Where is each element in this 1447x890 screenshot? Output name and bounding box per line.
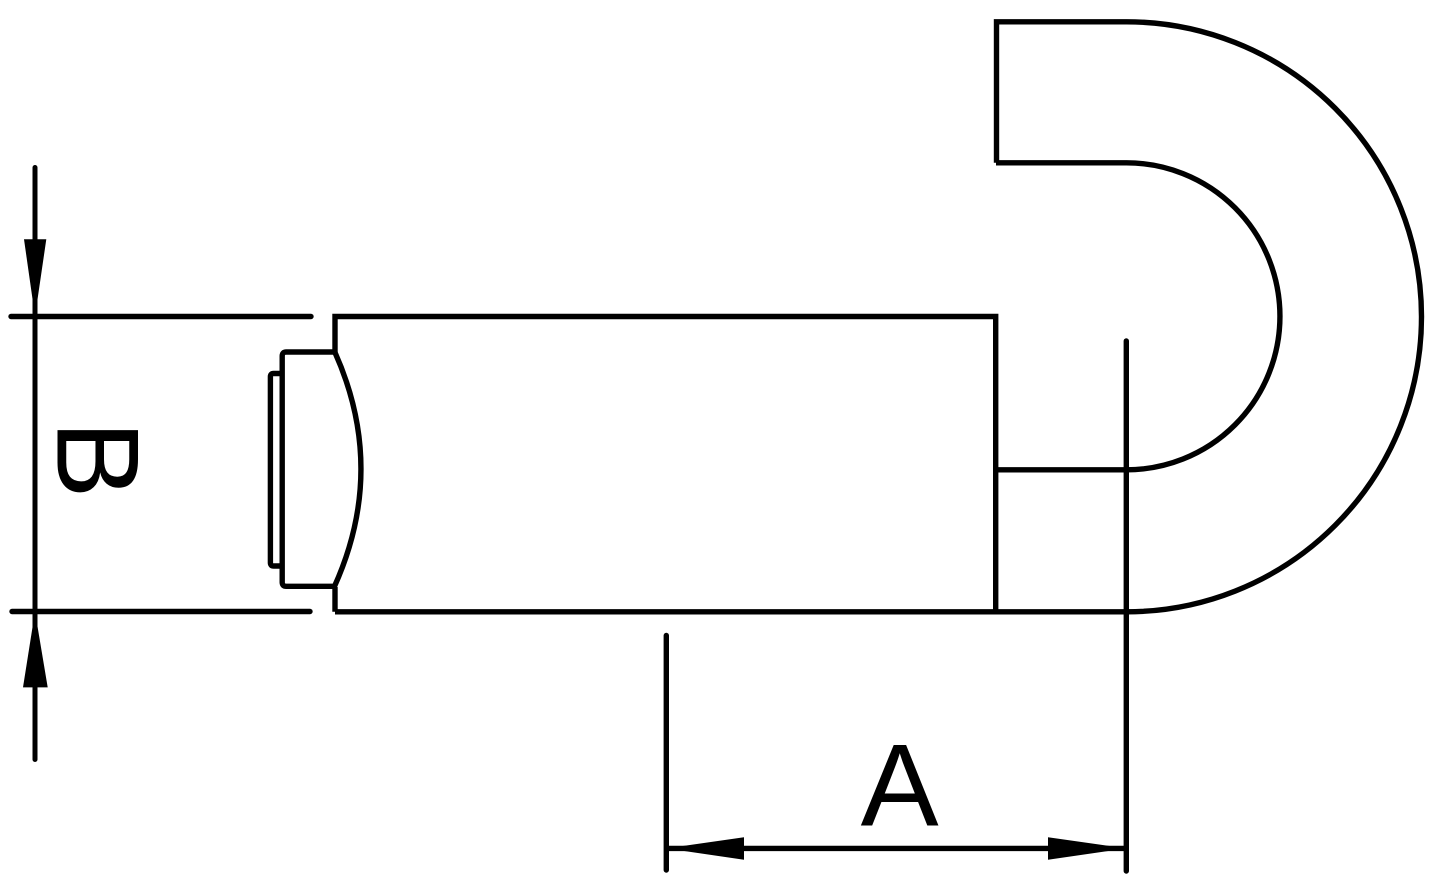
dimension B vertical line — [33, 168, 38, 760]
end cap dome arc — [334, 352, 361, 587]
dimension A left arrowhead — [666, 837, 744, 860]
hook outer profile (stub + outer arc) — [997, 22, 1422, 612]
hook inner profile (inner arc + throat line) — [996, 163, 1280, 470]
dimension A left extension line — [664, 636, 669, 871]
dimension B bottom extension line — [12, 609, 310, 614]
end cap collar rectangle — [282, 352, 334, 586]
end cap flange rectangle — [270, 374, 282, 567]
dimension A right extension line — [1124, 341, 1129, 871]
dimension A dimension line — [666, 846, 1126, 851]
dimension B bottom arrowhead — [23, 612, 48, 688]
svg-text:A: A — [861, 720, 939, 851]
body bottom line joining hook — [335, 609, 1127, 614]
svg-text:B: B — [33, 421, 164, 499]
dimension A right arrowhead — [1048, 837, 1126, 860]
dimension B top arrowhead — [24, 239, 46, 316]
body cylinder outline (top, left segments, right edge) — [335, 317, 996, 612]
dimension B top extension line — [11, 314, 311, 319]
